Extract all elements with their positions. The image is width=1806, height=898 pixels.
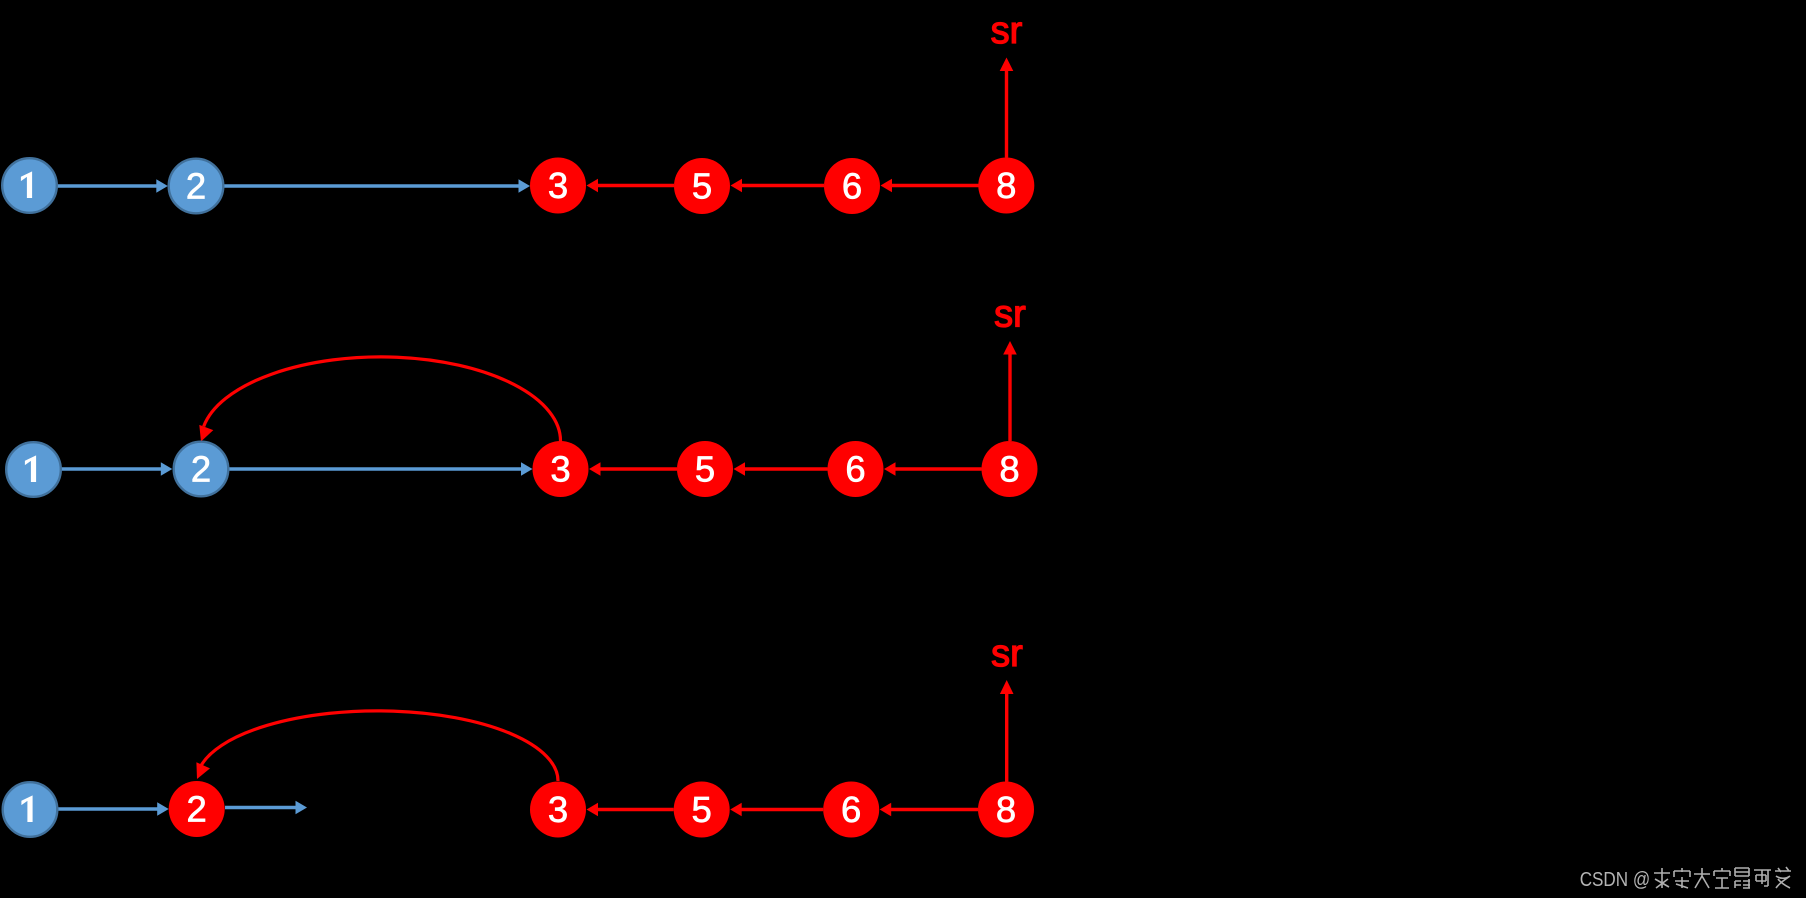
svg-text:6: 6: [845, 449, 865, 490]
node 2 row3 (red): [169, 781, 225, 837]
svg-text:sr: sr: [991, 10, 1023, 52]
wire blue 2->null row3: [225, 801, 307, 815]
wire red 8->6 row1: [881, 179, 979, 193]
wire blue 1->2 row1: [57, 179, 168, 193]
svg-text:6: 6: [842, 166, 862, 207]
node 8 row2: [982, 441, 1038, 497]
node 3 row2: [533, 441, 589, 497]
wire red 5->3 row3: [587, 803, 674, 817]
svg-text:3: 3: [548, 165, 568, 206]
svg-text:CSDN @: CSDN @: [1580, 868, 1651, 891]
svg-text:2: 2: [187, 789, 207, 830]
wire red vertical 8->sr row3: [1000, 680, 1014, 782]
node 6 row2: [828, 441, 884, 497]
wire red 6->5 row1: [731, 179, 825, 193]
node 8 row1: [978, 158, 1034, 214]
wire red 8->6 row3: [880, 803, 978, 817]
svg-text:3: 3: [550, 449, 570, 490]
svg-text:8: 8: [996, 789, 1016, 830]
node 6 row3: [823, 782, 879, 838]
wire red 6->5 row2: [734, 462, 828, 476]
wire red arc 3->2 row2: [199, 357, 560, 442]
wire blue 1->2 row2: [61, 462, 172, 476]
node 5 row1: [674, 158, 730, 214]
node 3 row1: [530, 158, 586, 214]
node 6 row1: [824, 158, 880, 214]
node 8 row3: [978, 782, 1034, 838]
node 1 row2: [6, 442, 61, 497]
wire red vertical 8->sr row1: [1000, 58, 1014, 158]
svg-text:sr: sr: [994, 294, 1026, 336]
svg-text:2: 2: [186, 166, 206, 207]
wire red 5->3 row2: [589, 462, 677, 476]
svg-text:sr: sr: [991, 633, 1023, 675]
svg-text:2: 2: [191, 449, 211, 490]
node 2 row2: [174, 442, 229, 497]
wire blue 1->2 row3: [58, 802, 169, 816]
node 5 row3: [674, 782, 730, 838]
svg-text:5: 5: [692, 789, 712, 830]
wire blue 2->3 row2: [229, 462, 533, 476]
wire red 6->5 row3: [730, 803, 823, 817]
wire red 5->3 row1: [587, 179, 675, 193]
node 5 row2: [677, 441, 733, 497]
svg-text:5: 5: [692, 166, 712, 207]
svg-text:6: 6: [841, 789, 861, 830]
node 3 row3: [530, 782, 586, 838]
svg-text:8: 8: [996, 165, 1016, 206]
watermark CSDN: [1580, 868, 1651, 891]
watermark CJK glyph blocks: [1654, 867, 1791, 888]
wire red vertical 8->sr row2: [1003, 341, 1017, 441]
wire blue 2->3 row1: [224, 179, 530, 193]
svg-text:8: 8: [999, 449, 1019, 490]
node 2 row1: [169, 159, 224, 214]
wire red arc 3->2 row3: [196, 711, 558, 781]
wire red 8->6 row2: [884, 462, 982, 476]
node 1 row1: [2, 158, 57, 213]
svg-text:5: 5: [695, 449, 715, 490]
svg-text:3: 3: [548, 789, 568, 830]
node 1 row3: [3, 782, 58, 837]
